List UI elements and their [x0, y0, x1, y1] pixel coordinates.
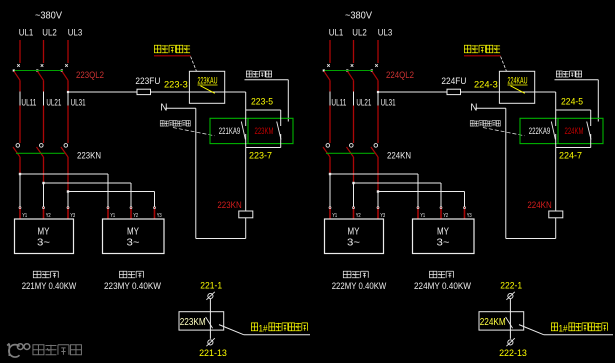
- svg-text:224KM: 224KM: [480, 317, 506, 328]
- contactor 223KN pole 3 (left): [61, 144, 68, 192]
- svg-text:Y3: Y3: [70, 213, 75, 219]
- breaker 224QL2 pole 3 (right): [371, 64, 378, 91]
- terminal Y2 motor 2 (right): [440, 207, 448, 219]
- node UL3 label (right): [378, 28, 393, 39]
- terminal Y2 motor 1 (right): [353, 207, 361, 219]
- svg-text:UL3: UL3: [378, 28, 393, 39]
- terminal Y1 motor 2 (right): [417, 207, 425, 219]
- svg-text:221-13: 221-13: [199, 348, 227, 359]
- node UL2 label (right): [352, 28, 367, 39]
- contact box 224KM (right): [479, 312, 524, 339]
- svg-text:Y3: Y3: [467, 213, 472, 219]
- group box divider (right): [557, 118, 559, 143]
- motor M2 223MY box (left): [103, 219, 165, 254]
- label 224QL2 (right): [386, 70, 414, 81]
- svg-text:222-13: 222-13: [499, 348, 527, 359]
- terminal Y3 motor 1 (right): [377, 207, 385, 219]
- caption brake device M1 (right): [343, 271, 368, 278]
- value 222MY 0.40KW (right): [332, 281, 387, 291]
- svg-text:221-1: 221-1: [200, 280, 222, 291]
- caption brake device M2 (right): [430, 271, 454, 278]
- svg-text:223-3: 223-3: [164, 80, 188, 90]
- value 224MY 0.40KW (right): [414, 281, 471, 291]
- wire phase UL3 upper (left): [67, 40, 69, 63]
- label terminal 222-13 (right): [499, 348, 527, 359]
- coil 224KN (right): [527, 200, 562, 218]
- svg-text:224QL2: 224QL2: [386, 70, 414, 81]
- svg-text:223KAU: 223KAU: [198, 76, 218, 86]
- contactor 223KN pole 1 (left): [13, 144, 20, 174]
- leader annotation to relay 223KAU (left): [191, 57, 197, 72]
- svg-text:Y1: Y1: [420, 213, 425, 219]
- svg-text:223-5: 223-5: [251, 96, 273, 106]
- fuse 223FU (left): [137, 89, 151, 94]
- wire phase UL1 upper (left): [19, 40, 21, 63]
- wire terminal to contact box (right): [509, 299, 511, 312]
- relay contact 224KAU (right): [499, 71, 534, 103]
- label wire 223-3 (left): [164, 80, 188, 90]
- svg-text:3~: 3~: [347, 237, 360, 249]
- node branch junction phase 1 (right): [329, 173, 418, 207]
- node UL11 label (left): [20, 92, 36, 109]
- caption brake device M1 (left): [33, 271, 58, 278]
- value 223MY 0.40KW (left): [104, 281, 161, 291]
- contactor 223KN tie bar (left): [16, 152, 65, 154]
- annotation from-power-source (right): [464, 45, 501, 56]
- svg-text:Y2: Y2: [46, 213, 51, 219]
- node UL2 label (left): [42, 28, 57, 39]
- label wire 224-3 (right): [474, 80, 498, 90]
- wire phase segment 3 mid (right): [377, 106, 379, 144]
- svg-text:UL11: UL11: [21, 97, 36, 108]
- label wire 224-7 (right): [559, 150, 582, 160]
- label 224KN contactor (right): [387, 150, 411, 161]
- node branch junction phase 2 (left): [42, 182, 131, 207]
- svg-text:224FU: 224FU: [441, 76, 466, 87]
- label wire 223-5 (left): [251, 96, 273, 106]
- svg-text:224MY 0.40KW: 224MY 0.40KW: [414, 281, 471, 291]
- wire parallel branch loop (left): [246, 110, 281, 148]
- node UL21 label (right): [354, 92, 372, 109]
- wire terminal to contact box (left): [209, 299, 211, 312]
- leader annotation to relay 224KAU (right): [501, 57, 507, 72]
- terminal Y1 motor 2 (left): [107, 207, 115, 219]
- svg-text:223FU: 223FU: [135, 76, 160, 87]
- node branch junction phase 3 (left): [67, 190, 155, 207]
- terminal Y2 motor 1 (left): [43, 207, 51, 219]
- wire UL31 to fuse (right): [378, 91, 447, 93]
- svg-text:3~: 3~: [37, 237, 50, 249]
- wire 224-5 horizontal (right): [535, 91, 556, 93]
- svg-text:UL1: UL1: [19, 28, 34, 39]
- contactor 223KN pole 2 (left): [37, 144, 44, 183]
- terminal Y3 motor 2 (left): [154, 207, 162, 219]
- node UL1 label (left): [19, 28, 34, 39]
- svg-text:224KN: 224KN: [387, 150, 411, 161]
- terminal 221-13 symbol (left): [206, 338, 214, 346]
- terminal Y2 motor 2 (left): [130, 207, 138, 219]
- terminal 222-1 symbol (right): [506, 292, 514, 300]
- breaker 223QL2 pole 3 (left): [61, 64, 68, 91]
- svg-text:223KM: 223KM: [180, 317, 206, 328]
- node control tap on UL31 (right): [377, 91, 379, 93]
- contact 222KA9 (right): [529, 122, 556, 140]
- contactor 224KN tie bar (right): [326, 152, 375, 154]
- watermark logo: [7, 344, 30, 358]
- svg-text:UL2: UL2: [42, 28, 57, 39]
- wire phase UL1 upper (right): [329, 40, 331, 63]
- svg-text:223QL2: 223QL2: [76, 70, 104, 81]
- wire phase segment 1 mid (left): [19, 106, 21, 144]
- svg-text:UL11: UL11: [331, 97, 346, 108]
- breaker 223QL2 tie bar (left): [15, 70, 64, 72]
- wire coil return to N (left): [196, 108, 246, 238]
- svg-text:~380V: ~380V: [345, 11, 372, 22]
- svg-text:223KM: 223KM: [255, 126, 274, 136]
- wire fuse to relay box (right): [461, 91, 500, 93]
- breaker 224QL2 tie bar (right): [325, 70, 374, 72]
- svg-text:3~: 3~: [127, 237, 140, 249]
- label 223QL2 (left): [76, 70, 104, 81]
- terminal 222-13 symbol (right): [506, 338, 514, 346]
- wire fuse to relay box (left): [151, 91, 190, 93]
- svg-text:UL3: UL3: [68, 28, 83, 39]
- contactor 224KN pole 1 (right): [323, 144, 330, 174]
- svg-text:223MY 0.40KW: 223MY 0.40KW: [104, 281, 161, 291]
- label 223KN contactor (left): [77, 150, 101, 161]
- svg-text:222KA9: 222KA9: [529, 126, 550, 136]
- terminal Y3 motor 2 (right): [464, 207, 472, 219]
- wire loop to coil (right): [555, 148, 557, 212]
- svg-text:1#: 1#: [259, 323, 268, 333]
- watermark brand text: [33, 345, 81, 355]
- svg-text:Y2: Y2: [356, 213, 361, 219]
- terminal 221-1 symbol (left): [206, 292, 214, 300]
- fuse 224FU (right): [447, 89, 461, 94]
- annotation to No.1 frequency cabinet (right): [551, 323, 607, 333]
- wire loop to coil (left): [245, 148, 247, 212]
- svg-text:223-7: 223-7: [249, 150, 272, 160]
- svg-text:UL21: UL21: [46, 97, 61, 108]
- terminal Y1 motor 1 (right): [329, 207, 337, 219]
- node UL3 label (left): [68, 28, 83, 39]
- relay contact 223KAU (left): [189, 71, 224, 103]
- wire phase segment 2 mid (right): [353, 106, 355, 144]
- wire parallel branch loop (right): [556, 110, 591, 148]
- motor M2 224MY box (right): [413, 219, 475, 254]
- wire 223-5 vertical (left): [245, 92, 247, 110]
- node branch junction phase 3 (right): [377, 190, 465, 207]
- label 224FU (right): [441, 76, 466, 87]
- node control tap on UL31 (left): [67, 91, 69, 93]
- svg-text:Y1: Y1: [22, 213, 27, 219]
- label 223FU (left): [135, 76, 160, 87]
- leader to frequency cabinet (left): [219, 325, 310, 335]
- svg-text:UL21: UL21: [356, 97, 371, 108]
- node branch junction phase 2 (right): [352, 182, 441, 207]
- breaker 224QL2 pole 1 (right): [323, 64, 330, 91]
- value 221MY 0.40KW (left): [22, 281, 77, 291]
- contactor 224KN pole 3 (right): [371, 144, 378, 192]
- group box contacts (right): [520, 118, 603, 143]
- wire 223-5 horizontal (left): [225, 91, 246, 93]
- svg-text:224-5: 224-5: [561, 96, 583, 106]
- wire phase segment 3 mid (left): [67, 106, 69, 144]
- svg-text:221KA9: 221KA9: [219, 126, 240, 136]
- node UL31 label (right): [378, 92, 396, 109]
- svg-text:224KN: 224KN: [527, 200, 551, 211]
- wire UL31 to fuse (left): [68, 91, 137, 93]
- annotation to No.1 frequency cabinet (left): [251, 323, 307, 333]
- node branch junction phase 1 (left): [19, 173, 108, 207]
- breaker 223QL2 pole 1 (left): [13, 64, 20, 91]
- contact 224KM (right): [565, 122, 592, 140]
- label terminal 221-13 (left): [199, 348, 227, 359]
- svg-text:~380V: ~380V: [35, 11, 62, 22]
- svg-text:222MY 0.40KW: 222MY 0.40KW: [332, 281, 387, 291]
- motor M1 222MY box (right): [325, 219, 384, 254]
- svg-text:224-7: 224-7: [559, 150, 582, 160]
- label wire 224-5 (right): [561, 96, 583, 106]
- svg-text:UL1: UL1: [329, 28, 344, 39]
- net ~380V supply label (right): [345, 11, 372, 22]
- contact 221KA9 (left): [219, 122, 246, 140]
- svg-text:223KN: 223KN: [77, 150, 101, 161]
- annotation from-power-source (left): [154, 45, 191, 56]
- wire phase UL2 upper (left): [43, 40, 45, 63]
- net ~380V supply label (left): [35, 11, 62, 22]
- annotation from-main-control-loop with leader (left): [160, 121, 214, 136]
- svg-text:Y2: Y2: [133, 213, 138, 219]
- svg-text:Y1: Y1: [332, 213, 337, 219]
- breaker 223QL2 pole 2 (left): [36, 64, 43, 91]
- svg-text:Y3: Y3: [157, 213, 162, 219]
- svg-text:UL31: UL31: [71, 97, 86, 108]
- node UL31 label (left): [68, 92, 86, 109]
- label terminal 221-1 (left): [200, 280, 222, 291]
- annotation from-main-control-loop with leader (right): [470, 121, 524, 136]
- svg-text:Y2: Y2: [443, 213, 448, 219]
- svg-text:224-3: 224-3: [474, 80, 498, 90]
- contact 223KM (left): [255, 122, 282, 140]
- svg-text:224KM: 224KM: [565, 126, 584, 136]
- node UL1 label (right): [329, 28, 344, 39]
- svg-text:224KAU: 224KAU: [508, 76, 528, 86]
- svg-text:1#: 1#: [559, 323, 568, 333]
- motor M1 221MY box (left): [15, 219, 74, 254]
- contact box 223KM (left): [179, 312, 224, 339]
- neutral N rail (right): [470, 103, 506, 114]
- wire phase segment 2 mid (left): [43, 106, 45, 144]
- terminal Y3 motor 1 (left): [67, 207, 75, 219]
- wire phase UL3 upper (right): [377, 40, 379, 63]
- annotation emergency-button with leader (left): [245, 71, 289, 122]
- leader to frequency cabinet (right): [519, 325, 613, 335]
- coil 223KN (left): [217, 200, 252, 218]
- svg-text:UL31: UL31: [381, 97, 396, 108]
- breaker 224QL2 pole 2 (right): [346, 64, 353, 91]
- wire 224-5 vertical (right): [555, 92, 557, 110]
- contactor 224KN pole 2 (right): [347, 144, 354, 183]
- annotation emergency-button with leader (right): [555, 71, 599, 122]
- group box contacts (left): [210, 118, 293, 143]
- group box divider (left): [247, 118, 249, 143]
- svg-text:Y1: Y1: [110, 213, 115, 219]
- neutral N rail (left): [160, 103, 196, 114]
- wire phase UL2 upper (right): [353, 40, 355, 63]
- label terminal 222-1 (right): [500, 280, 522, 291]
- svg-text:3~: 3~: [437, 237, 450, 249]
- svg-text:222-1: 222-1: [500, 280, 522, 291]
- node UL11 label (right): [330, 92, 346, 109]
- wire phase segment 1 mid (right): [329, 106, 331, 144]
- label wire 223-7 (left): [249, 150, 272, 160]
- svg-text:Y3: Y3: [380, 213, 385, 219]
- terminal Y1 motor 1 (left): [19, 207, 27, 219]
- node UL21 label (left): [44, 92, 62, 109]
- svg-text:221MY 0.40KW: 221MY 0.40KW: [22, 281, 77, 291]
- svg-text:223KN: 223KN: [217, 200, 241, 211]
- svg-text:UL2: UL2: [352, 28, 367, 39]
- wire coil return to N (right): [506, 108, 556, 238]
- caption brake device M2 (left): [120, 271, 144, 278]
